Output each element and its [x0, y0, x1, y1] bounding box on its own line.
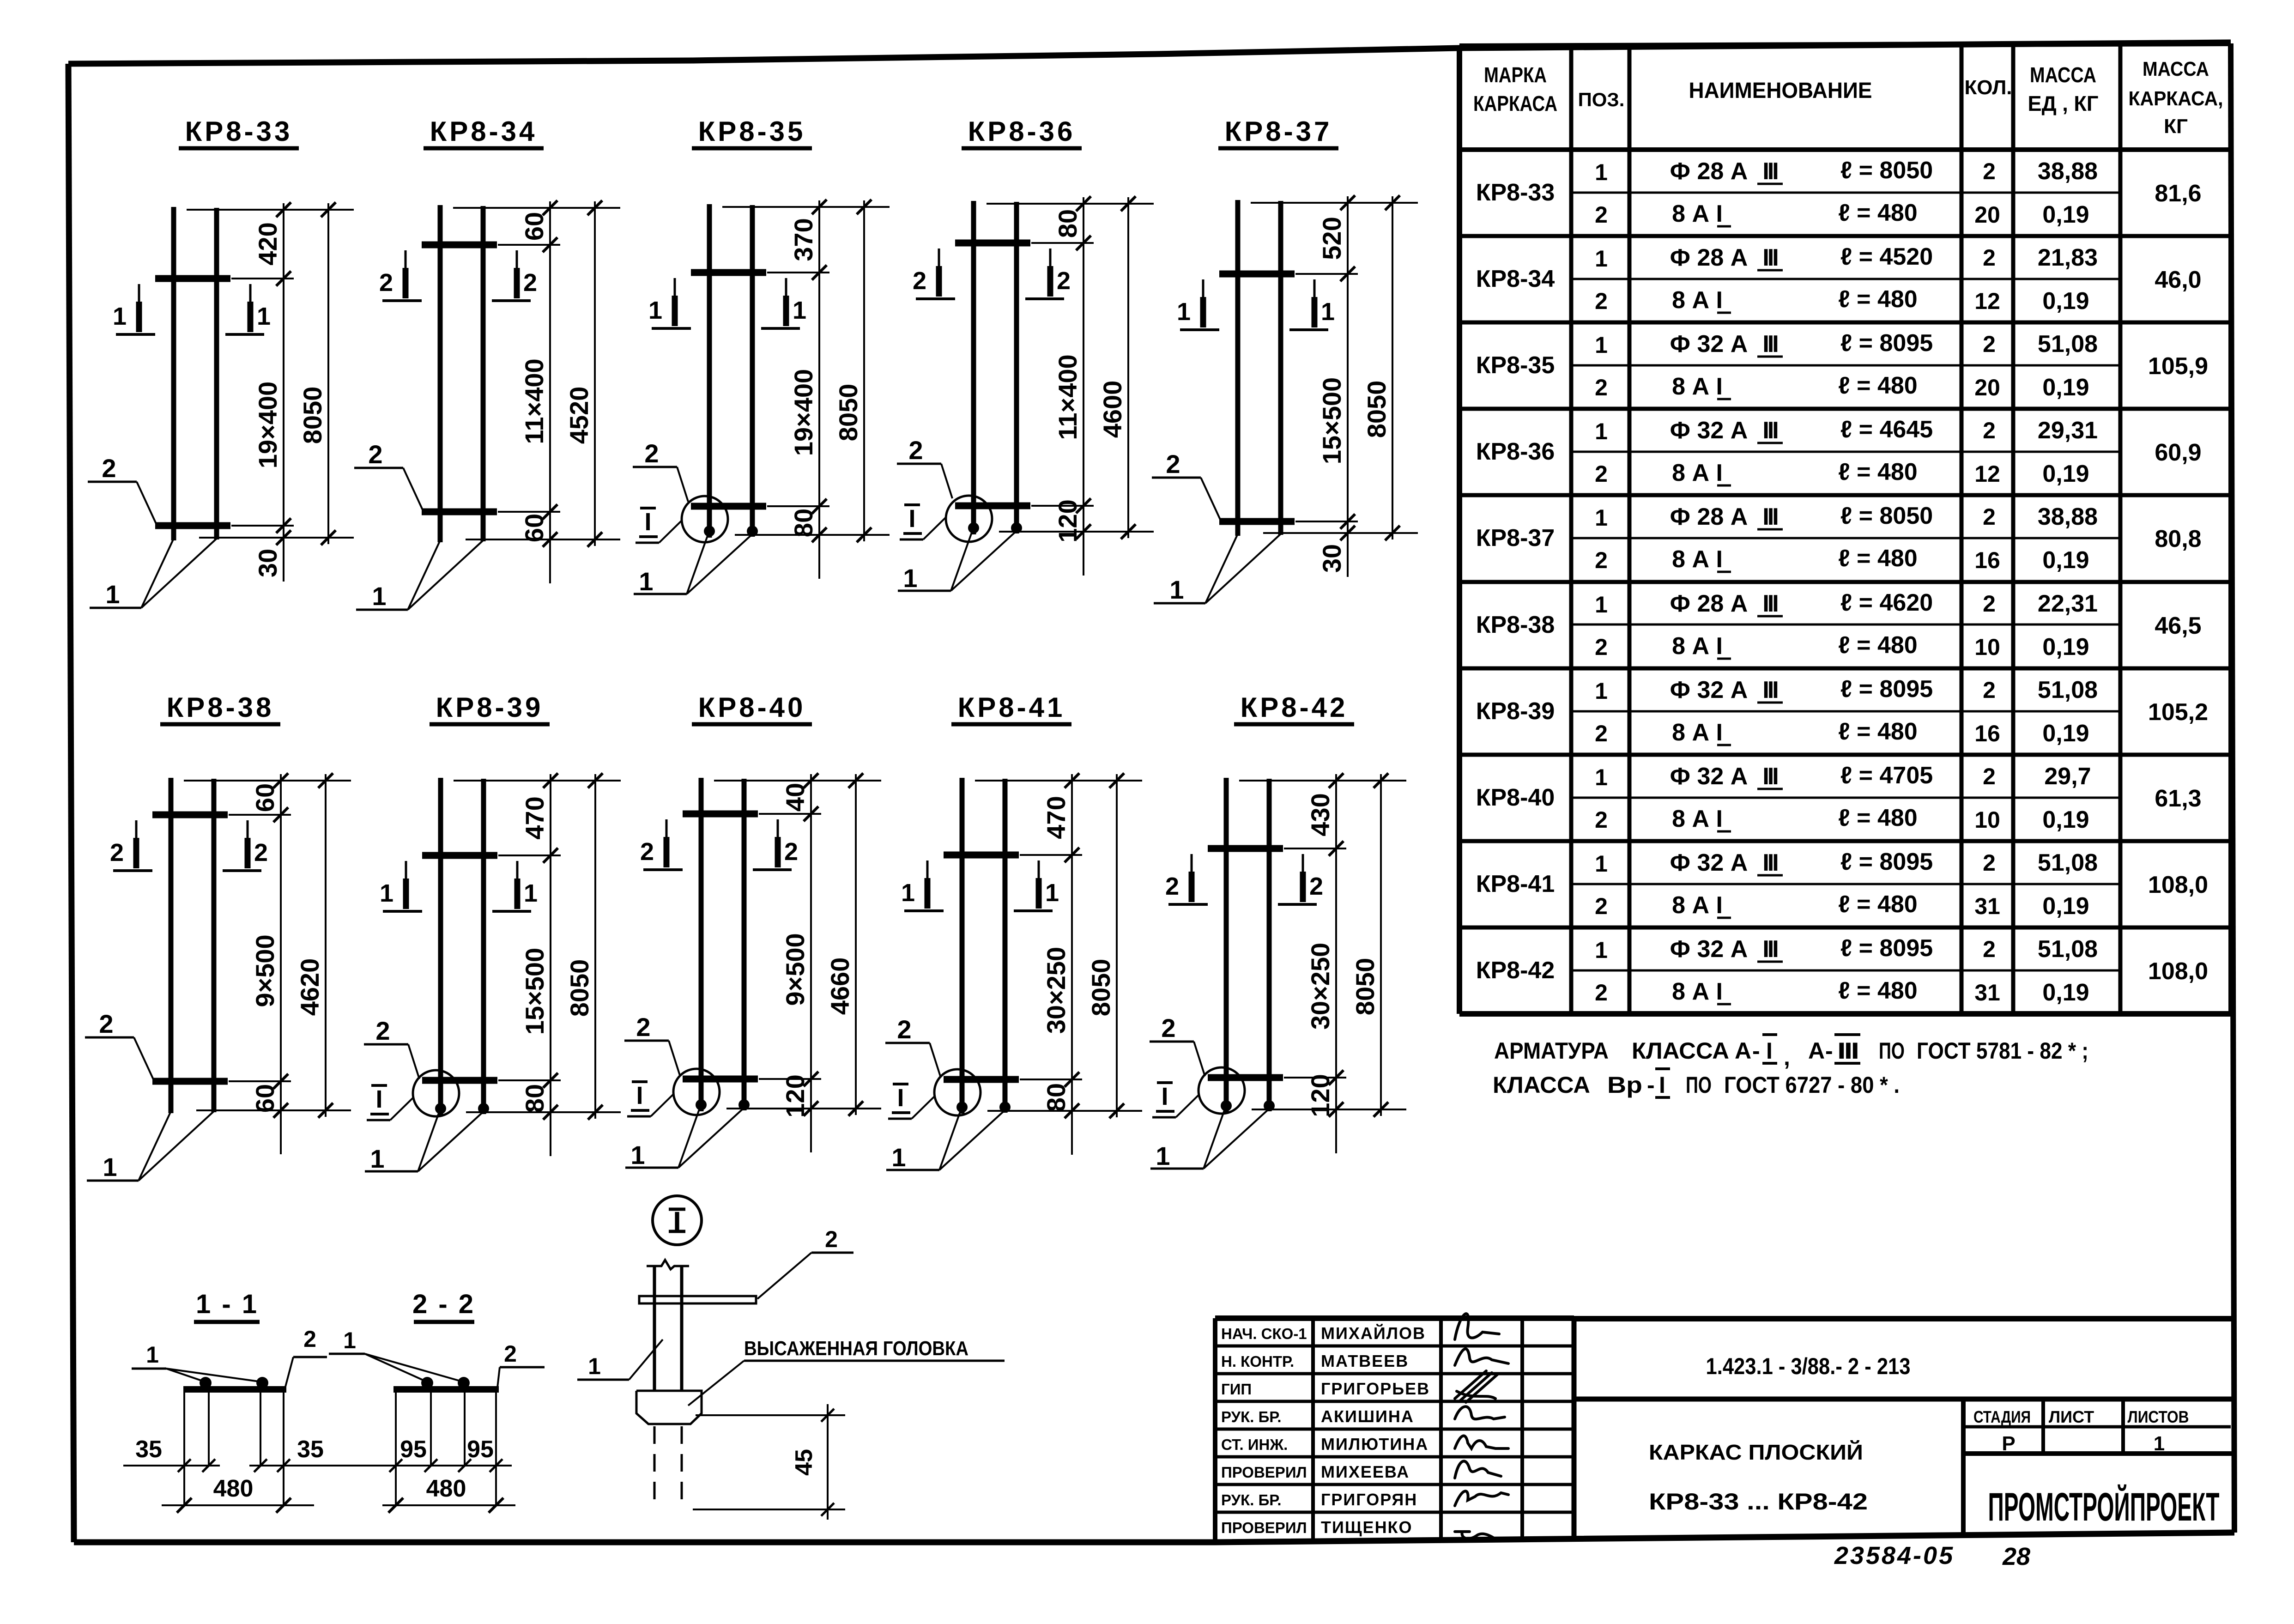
cross bar pos.2 top of КР8-38	[152, 812, 228, 818]
section mark 1 right of КР8-37	[1289, 279, 1335, 330]
cross bar pos.2 bottom of КР8-41	[944, 1076, 1019, 1083]
section 2-2	[329, 1289, 545, 1513]
svg-text:1: 1	[372, 582, 386, 611]
svg-text:ℓ = 4520: ℓ = 4520	[1840, 243, 1933, 270]
detail I	[577, 1196, 1005, 1520]
detail circle I on КР8-41	[934, 1069, 981, 1115]
svg-text:МИХЕЕВА: МИХЕЕВА	[1321, 1462, 1410, 1481]
svg-text:9×500: 9×500	[781, 933, 810, 1006]
svg-text:12: 12	[1974, 461, 2000, 487]
svg-text:КР8-33: КР8-33	[185, 116, 293, 147]
svg-text:ПРОМСТРОЙПРОЕКТ: ПРОМСТРОЙПРОЕКТ	[1988, 1485, 2220, 1529]
svg-text:16: 16	[1974, 547, 2000, 573]
section mark 2 right of КР8-40	[753, 819, 798, 870]
table row КР8-39	[1476, 676, 2208, 747]
cross bar pos.2 bottom of КР8-35	[691, 503, 766, 510]
signature row СТ. ИНЖ. МИЛЮТИНА	[1221, 1435, 1508, 1454]
svg-text:1: 1	[257, 303, 271, 330]
bar pos.1 right of КР8-37	[1278, 201, 1283, 535]
svg-text:2: 2	[504, 1341, 517, 1367]
cage diagram КР8-41	[885, 692, 1142, 1172]
bar pos.1 right of КР8-41	[1003, 779, 1008, 1113]
table row КР8-33	[1476, 157, 2202, 228]
bar pos.1 right of КР8-36	[1014, 202, 1019, 533]
svg-text:ПО: ПО	[1879, 1038, 1905, 1064]
svg-text:ℓ = 480: ℓ = 480	[1838, 891, 1917, 918]
svg-text:0,19: 0,19	[2042, 806, 2089, 833]
detail circle I on КР8-42	[1198, 1067, 1245, 1114]
svg-text:2: 2	[897, 1015, 911, 1044]
svg-text:11×400: 11×400	[520, 358, 549, 444]
svg-text:Ф 32 А: Ф 32 А	[1670, 417, 1748, 444]
svg-text:2: 2	[913, 267, 926, 295]
svg-text:Ф 28 А: Ф 28 А	[1670, 158, 1748, 185]
cage diagram КР8-39	[364, 692, 621, 1173]
note on reinforcement classes	[1493, 1035, 2088, 1098]
svg-text:ЛИСТ: ЛИСТ	[2049, 1407, 2094, 1426]
svg-text:8 А I: 8 А I	[1672, 460, 1723, 486]
svg-text:ℓ = 4620: ℓ = 4620	[1840, 589, 1933, 616]
svg-text:108,0: 108,0	[2148, 872, 2208, 898]
upset head dots of КР8-42	[1221, 1100, 1232, 1111]
extension lines of КР8-37	[1251, 202, 1418, 204]
table header	[1473, 58, 2223, 138]
svg-text:29,31: 29,31	[2038, 417, 2098, 444]
svg-text:60: 60	[520, 514, 549, 542]
svg-text:2: 2	[640, 838, 654, 866]
svg-text:КР8-42: КР8-42	[1241, 692, 1348, 723]
bar pos.1 right of КР8-38	[212, 779, 217, 1112]
svg-text:АКИШИНА: АКИШИНА	[1321, 1407, 1414, 1426]
svg-text:ТИЩЕНКО: ТИЩЕНКО	[1321, 1518, 1413, 1537]
section mark 1 left of КР8-41	[901, 860, 944, 911]
svg-text:ПОЗ.: ПОЗ.	[1578, 89, 1625, 110]
svg-text:1: 1	[1595, 332, 1608, 358]
svg-text:2: 2	[303, 1326, 316, 1352]
svg-text:38,88: 38,88	[2038, 158, 2098, 185]
svg-text:8050: 8050	[565, 959, 594, 1017]
svg-text:8 А I: 8 А I	[1672, 892, 1723, 919]
svg-text:420: 420	[253, 222, 282, 265]
bar pos.1 left of КР8-36	[971, 201, 976, 534]
svg-text:20: 20	[1974, 375, 2000, 400]
svg-text:2: 2	[1595, 634, 1608, 660]
svg-text:III: III	[1762, 849, 1777, 876]
bar pos.1 right of КР8-40	[742, 779, 747, 1110]
svg-text:8 А I: 8 А I	[1672, 978, 1723, 1005]
svg-text:НАИМЕНОВАНИЕ: НАИМЕНОВАНИЕ	[1689, 79, 1872, 103]
dimension line outer of КР8-35	[863, 200, 865, 541]
svg-text:8050: 8050	[1086, 959, 1115, 1017]
extension lines of КР8-38	[184, 780, 351, 782]
section mark 2 right of КР8-42	[1278, 854, 1323, 904]
svg-text:III: III	[1762, 936, 1777, 963]
svg-text:2: 2	[636, 1012, 650, 1042]
svg-text:19×400: 19×400	[253, 382, 282, 468]
svg-text:ГИП: ГИП	[1221, 1381, 1252, 1398]
svg-text:80,8: 80,8	[2155, 526, 2201, 552]
svg-text:51,08: 51,08	[2038, 849, 2098, 876]
section mark 2 left of КР8-40	[640, 819, 683, 870]
signature row РУК. БР. ГРИГОРЯН	[1221, 1490, 1508, 1509]
svg-text:0,19: 0,19	[2042, 374, 2089, 401]
svg-text:60: 60	[250, 1084, 279, 1113]
svg-text:РУК. БР.: РУК. БР.	[1221, 1408, 1282, 1425]
svg-text:8 А I: 8 А I	[1672, 806, 1723, 832]
svg-text:III: III	[1762, 503, 1777, 530]
svg-text:Ф 32 А: Ф 32 А	[1670, 763, 1748, 790]
svg-text:46,0: 46,0	[2155, 267, 2201, 293]
cross bar pos.2 bottom of КР8-39	[422, 1077, 497, 1084]
svg-text:1 - 1: 1 - 1	[196, 1289, 259, 1319]
svg-text:III: III	[1762, 590, 1777, 617]
section mark 1 right of КР8-35	[761, 278, 806, 328]
svg-text:-: -	[1825, 1038, 1833, 1064]
svg-text:РУК. БР.: РУК. БР.	[1221, 1491, 1282, 1509]
svg-text:2: 2	[1983, 245, 1996, 271]
svg-text:8 А I: 8 А I	[1672, 633, 1723, 660]
upset head dots of КР8-40	[696, 1099, 707, 1110]
svg-text:1: 1	[901, 879, 915, 907]
svg-text:105,9: 105,9	[2148, 353, 2208, 380]
svg-text:8 А I: 8 А I	[1672, 200, 1723, 227]
svg-text:60: 60	[250, 783, 279, 812]
extension lines of КР8-40	[714, 780, 881, 782]
upset head dots of КР8-39	[435, 1103, 446, 1114]
cross bar pos.2 bottom of КР8-37	[1219, 518, 1295, 525]
svg-text:9×500: 9×500	[250, 934, 279, 1007]
dimension line inner of КР8-33	[283, 203, 284, 582]
table row КР8-34	[1476, 243, 2202, 315]
svg-text:15×500: 15×500	[1317, 377, 1346, 464]
svg-text:2: 2	[784, 838, 798, 866]
svg-text:2: 2	[110, 839, 124, 867]
cage diagram КР8-35	[633, 116, 890, 596]
svg-text:2: 2	[1983, 504, 1996, 530]
svg-text:КАРКАСА,: КАРКАСА,	[2129, 87, 2223, 110]
svg-text:КР8-38: КР8-38	[1476, 612, 1555, 638]
svg-text:ПРОВЕРИЛ: ПРОВЕРИЛ	[1221, 1519, 1307, 1536]
svg-text:КР8-36: КР8-36	[968, 116, 1076, 147]
svg-text:1: 1	[146, 1342, 159, 1368]
svg-text:10: 10	[1974, 634, 2000, 660]
table row КР8-40	[1476, 762, 2202, 833]
cross bar pos.2 bottom of КР8-34	[422, 509, 497, 515]
svg-text:30: 30	[1317, 544, 1346, 573]
svg-text:ГРИГОРЬЕВ: ГРИГОРЬЕВ	[1321, 1379, 1430, 1398]
svg-text:1: 1	[630, 1140, 645, 1170]
svg-text:2: 2	[1983, 591, 1996, 617]
bar pos.1 left of КР8-37	[1235, 200, 1241, 536]
svg-text:КР8-37: КР8-37	[1476, 525, 1555, 551]
dimension line inner of КР8-39	[550, 774, 551, 1156]
svg-text:2: 2	[1595, 980, 1608, 1006]
svg-text:46,5: 46,5	[2155, 612, 2201, 639]
svg-text:2: 2	[1983, 764, 1996, 789]
svg-text:15×500: 15×500	[520, 948, 549, 1035]
svg-text:80: 80	[1053, 209, 1082, 238]
svg-text:КР8-34: КР8-34	[1476, 266, 1555, 292]
svg-text:КАРКАС ПЛОСКИЙ: КАРКАС ПЛОСКИЙ	[1649, 1440, 1863, 1464]
svg-text:480: 480	[426, 1475, 466, 1502]
svg-text:2: 2	[1595, 807, 1608, 833]
svg-text:III: III	[1762, 763, 1777, 790]
svg-text:МАССА: МАССА	[2143, 58, 2209, 80]
svg-text:Р: Р	[2002, 1432, 2015, 1455]
svg-text:ℓ = 480: ℓ = 480	[1838, 459, 1917, 485]
bar pos.1 left of КР8-38	[169, 778, 174, 1113]
svg-text:370: 370	[789, 218, 818, 261]
svg-text:1: 1	[648, 297, 662, 324]
svg-text:0,19: 0,19	[2042, 720, 2089, 747]
section mark 2 left of КР8-34	[379, 250, 422, 301]
section mark 1 left of КР8-33	[113, 284, 155, 334]
svg-text:АРМАТУРА: АРМАТУРА	[1494, 1038, 1609, 1064]
svg-text:2: 2	[375, 1016, 390, 1045]
svg-text:ℓ = 4705: ℓ = 4705	[1840, 762, 1933, 789]
svg-text:1: 1	[1595, 851, 1608, 877]
svg-text:2: 2	[1595, 893, 1608, 919]
svg-text:КЛАССА: КЛАССА	[1632, 1038, 1729, 1064]
svg-text:III: III	[1762, 244, 1777, 271]
svg-text:120: 120	[1053, 499, 1082, 542]
cage diagram КР8-34	[354, 116, 620, 611]
svg-text:КР8-33: КР8-33	[1476, 179, 1555, 206]
svg-text:0,19: 0,19	[2042, 893, 2089, 920]
svg-text:1: 1	[1595, 159, 1608, 185]
svg-text:1: 1	[1045, 879, 1059, 907]
section mark 1 right of КР8-41	[1014, 860, 1059, 911]
svg-text:Ф 32 А: Ф 32 А	[1670, 331, 1748, 358]
svg-text:35: 35	[297, 1436, 324, 1463]
svg-text:Н. КОНТР.: Н. КОНТР.	[1221, 1353, 1294, 1370]
svg-text:ℓ = 480: ℓ = 480	[1838, 545, 1917, 572]
svg-text:1: 1	[1595, 764, 1608, 790]
svg-text:I: I	[1161, 1083, 1168, 1110]
svg-text:16: 16	[1974, 721, 2000, 746]
svg-text:1: 1	[1169, 575, 1184, 604]
svg-text:80: 80	[1041, 1083, 1071, 1112]
cage diagram КР8-36	[897, 116, 1154, 593]
svg-text:I: I	[644, 508, 651, 536]
svg-text:Вр: Вр	[1607, 1072, 1642, 1098]
dimension line outer of КР8-34	[594, 201, 596, 546]
table row КР8-38	[1476, 589, 2202, 661]
section mark 1 left of КР8-39	[380, 861, 422, 911]
section mark 2 right of КР8-36	[1025, 248, 1071, 299]
section mark 2 left of КР8-36	[913, 248, 955, 299]
svg-text:1: 1	[103, 1152, 117, 1182]
svg-text:2: 2	[1166, 449, 1180, 479]
svg-text:108,0: 108,0	[2148, 958, 2208, 985]
cross bar pos.2 bottom of КР8-36	[955, 503, 1030, 509]
svg-text:95: 95	[400, 1436, 427, 1463]
svg-text:I: I	[908, 505, 915, 533]
svg-text:ЕД , КГ: ЕД , КГ	[2028, 91, 2099, 115]
svg-text:35: 35	[135, 1436, 162, 1463]
svg-text:2: 2	[908, 436, 923, 465]
svg-text:1: 1	[1321, 298, 1335, 326]
detail circle I on КР8-36	[946, 496, 992, 542]
svg-text:1: 1	[113, 303, 127, 330]
svg-text:81,6: 81,6	[2155, 180, 2201, 207]
svg-text:2: 2	[1595, 547, 1608, 573]
svg-text:2: 2	[368, 440, 382, 469]
svg-text:1.423.1 - 3/88.- 2 - 213: 1.423.1 - 3/88.- 2 - 213	[1706, 1353, 1911, 1379]
extension lines of КР8-42	[1239, 780, 1406, 782]
svg-text:ГОСТ 5781 - 82 * ;: ГОСТ 5781 - 82 * ;	[1917, 1038, 2088, 1064]
svg-text:ℓ = 480: ℓ = 480	[1838, 977, 1917, 1004]
svg-text:Ф 32 А: Ф 32 А	[1670, 849, 1748, 876]
svg-text:2: 2	[1165, 873, 1179, 900]
svg-text:10: 10	[1974, 807, 2000, 833]
cross bar pos.2 top of КР8-40	[683, 811, 758, 818]
svg-text:КР8-40: КР8-40	[698, 692, 806, 723]
svg-text:51,08: 51,08	[2038, 936, 2098, 963]
bar pos.1 left of КР8-40	[699, 778, 704, 1111]
svg-text:38,88: 38,88	[2038, 503, 2098, 530]
svg-text:ГРИГОРЯН: ГРИГОРЯН	[1321, 1490, 1417, 1509]
svg-text:I: I	[1659, 1072, 1665, 1098]
cross bar pos.2 top of КР8-36	[955, 240, 1030, 247]
svg-text:I: I	[375, 1085, 382, 1113]
extension lines of КР8-34	[453, 207, 620, 209]
upset head dots of КР8-36	[968, 522, 979, 533]
signature row ГИП ГРИГОРЬЕВ	[1221, 1371, 1497, 1402]
bar pos.1 right of КР8-39	[481, 779, 486, 1114]
svg-text:ПО: ПО	[1686, 1072, 1712, 1098]
svg-text:31: 31	[1974, 893, 2000, 919]
svg-text:1: 1	[891, 1143, 906, 1172]
svg-text:8050: 8050	[298, 387, 327, 444]
svg-text:2: 2	[1983, 331, 1996, 357]
svg-text:2: 2	[1057, 267, 1071, 295]
svg-text:2: 2	[1983, 677, 1996, 703]
dimension line outer of КР8-33	[327, 203, 329, 544]
svg-text:КР8-40: КР8-40	[1476, 784, 1555, 811]
cage diagram КР8-38	[85, 692, 351, 1182]
signature row Н. КОНТР. МАТВЕЕВ	[1221, 1349, 1508, 1370]
svg-text:1: 1	[588, 1353, 601, 1379]
drawing frame	[68, 42, 2231, 64]
cross bar pos.2 top of КР8-37	[1219, 271, 1295, 278]
svg-text:105,2: 105,2	[2148, 699, 2208, 726]
svg-text:КР8-33 ... КР8-42: КР8-33 ... КР8-42	[1649, 1489, 1868, 1515]
svg-text:2: 2	[1983, 850, 1996, 876]
svg-text:КОЛ.: КОЛ.	[1964, 76, 2012, 99]
svg-text:III: III	[1762, 677, 1777, 703]
dimension line outer of КР8-38	[325, 774, 327, 1117]
extension lines of КР8-35	[722, 206, 890, 208]
svg-text:III: III	[1762, 417, 1777, 444]
svg-text:ℓ = 8050: ℓ = 8050	[1840, 503, 1933, 529]
svg-text:КР8-42: КР8-42	[1476, 957, 1555, 984]
svg-text:КР8-39: КР8-39	[436, 692, 544, 723]
dimension line inner of КР8-37	[1347, 196, 1349, 577]
specification table	[1459, 43, 2231, 1014]
svg-text:2: 2	[1983, 936, 1996, 962]
extension lines of КР8-36	[987, 203, 1154, 205]
svg-text:1: 1	[1177, 298, 1191, 326]
bar pos.1 right of КР8-33	[214, 208, 219, 539]
signature row ПРОВЕРИЛ ТИЩЕНКО	[1221, 1518, 1495, 1539]
dimension line outer of КР8-36	[1127, 197, 1129, 538]
svg-text:ℓ = 4645: ℓ = 4645	[1840, 416, 1933, 443]
svg-text:2: 2	[1983, 158, 1996, 184]
section mark 1 left of КР8-35	[648, 278, 691, 328]
cross bar pos.2 top of КР8-41	[944, 852, 1019, 859]
svg-text:80: 80	[789, 509, 818, 537]
svg-text:470: 470	[1041, 796, 1071, 839]
svg-text:45: 45	[791, 1449, 817, 1476]
svg-text:11×400: 11×400	[1053, 354, 1082, 440]
svg-text:2: 2	[102, 454, 116, 483]
detail circle I on КР8-39	[413, 1070, 459, 1116]
svg-text:ℓ = 480: ℓ = 480	[1838, 805, 1917, 831]
svg-text:КАРКАСА: КАРКАСА	[1473, 91, 1557, 115]
cross bar pos.2 bottom of КР8-42	[1208, 1074, 1283, 1081]
svg-text:2: 2	[1983, 418, 1996, 443]
svg-text:8050: 8050	[1350, 958, 1380, 1016]
table row КР8-36	[1476, 416, 2202, 487]
cross bar pos.2 top of КР8-33	[155, 275, 230, 282]
section mark 2 right of КР8-38	[223, 820, 268, 871]
dimension line inner of КР8-40	[810, 774, 812, 1152]
upset head dots of КР8-41	[956, 1102, 968, 1113]
svg-text:III: III	[1762, 331, 1777, 358]
table row КР8-41	[1476, 848, 2208, 920]
svg-text:1: 1	[1595, 418, 1608, 444]
svg-text:КР8-35: КР8-35	[698, 116, 806, 147]
svg-text:2: 2	[1595, 461, 1608, 487]
cage diagram КР8-40	[624, 692, 881, 1170]
svg-text:I: I	[636, 1082, 643, 1109]
svg-text:2: 2	[1595, 375, 1608, 400]
signature row ПРОВЕРИЛ МИХЕЕВА	[1221, 1461, 1501, 1481]
svg-text:4620: 4620	[295, 958, 324, 1016]
dimension line inner of КР8-36	[1083, 197, 1084, 576]
svg-text:12: 12	[1974, 288, 2000, 314]
bar pos.1 right of КР8-34	[481, 206, 486, 541]
dimension line outer of КР8-42	[1380, 774, 1382, 1116]
svg-text:20: 20	[1974, 202, 2000, 228]
svg-text:КР8-41: КР8-41	[1476, 871, 1555, 897]
svg-text:ПРОВЕРИЛ: ПРОВЕРИЛ	[1221, 1464, 1307, 1481]
svg-text:1: 1	[1156, 1141, 1170, 1170]
svg-text:ВЫСАЖЕННАЯ ГОЛОВКА: ВЫСАЖЕННАЯ ГОЛОВКА	[744, 1337, 968, 1360]
dimension line inner of КР8-34	[549, 201, 551, 583]
svg-text:51,08: 51,08	[2038, 331, 2098, 358]
svg-text:1: 1	[1595, 246, 1608, 272]
svg-text:ℓ = 8095: ℓ = 8095	[1840, 330, 1933, 357]
svg-text:ℓ = 480: ℓ = 480	[1838, 200, 1917, 226]
cage diagram КР8-42	[1150, 692, 1406, 1170]
signature row НАЧ. СКО-1 МИХАЙЛОВ	[1221, 1314, 1499, 1343]
dimension line inner of КР8-35	[818, 200, 820, 579]
svg-text:0,19: 0,19	[2042, 634, 2089, 661]
svg-text:2: 2	[379, 269, 393, 297]
detail circle I on КР8-40	[673, 1069, 720, 1115]
svg-text:1: 1	[1595, 678, 1608, 704]
svg-text:19×400: 19×400	[789, 369, 818, 456]
dimension line outer of КР8-41	[1116, 774, 1118, 1117]
detail circle I on КР8-35	[682, 496, 728, 542]
bar pos.1 left of КР8-42	[1224, 778, 1229, 1112]
svg-text:61,3: 61,3	[2155, 785, 2201, 812]
svg-text:80: 80	[520, 1084, 549, 1113]
title block : signature table	[1215, 1318, 1574, 1540]
section mark 2 left of КР8-42	[1165, 854, 1208, 904]
